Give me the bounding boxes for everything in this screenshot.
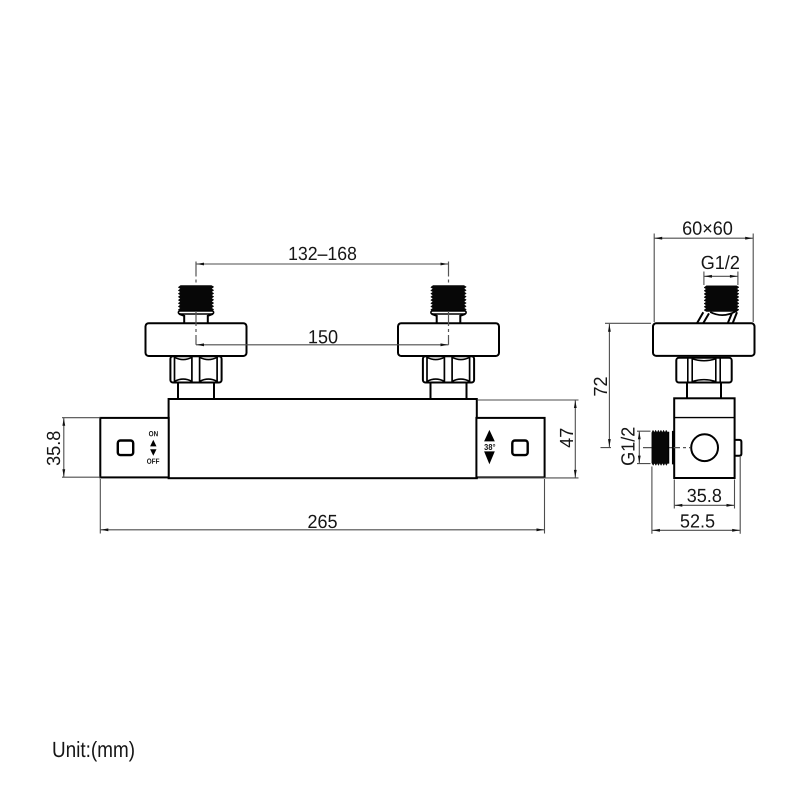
label 38 degrees (484, 444, 495, 450)
dimension 132-168 line (196, 263, 449, 265)
hex nut left (170, 356, 221, 382)
ON arrow up (150, 440, 156, 447)
dimension 35.8 side text (687, 489, 721, 502)
side valve body (674, 398, 734, 478)
escutcheon plate right 60x60 (398, 323, 499, 356)
dimension 72 extensions (601, 323, 652, 447)
unit note (53, 741, 133, 761)
side dimension G1/2 top extensions (704, 272, 738, 286)
dimension 132-168 text (289, 247, 356, 260)
temp arrow up (484, 430, 495, 442)
dimension G1/2 outlet text (621, 428, 635, 465)
thread washer left (178, 311, 213, 314)
side inlet pipe legs (697, 312, 737, 323)
side threaded inlet G1/2 (704, 286, 739, 312)
dimension 265 text (308, 515, 336, 528)
neck transition right (432, 314, 466, 324)
dimension 72 line (608, 324, 610, 447)
escutcheon plate left 60x60 (146, 323, 247, 356)
right handle (temperature) (476, 418, 544, 478)
dimension 265 extension lines (100, 479, 544, 534)
centerline inlet right (448, 262, 450, 345)
right handle button (512, 441, 527, 456)
side inlet pipe bottom arc (710, 311, 736, 315)
dimension 47 extension lines (478, 400, 579, 478)
dimension 52.5 extensions (652, 457, 740, 534)
dimension 35.8 side extensions (674, 480, 734, 509)
valve bar body (169, 399, 477, 478)
side body seam (674, 417, 734, 419)
outlet stub rings (668, 431, 672, 465)
side outlet centerline (643, 447, 690, 449)
neck transition left (179, 314, 213, 324)
thread washer right (431, 311, 466, 314)
side dimension G1/2 top text (702, 255, 739, 269)
side hex nut (676, 358, 731, 383)
dimension 52.5 line (652, 529, 740, 531)
hex nut right (423, 356, 474, 382)
dimension 265 line (100, 529, 544, 531)
dimension 35.8 line (63, 418, 65, 478)
dimension 52.5 text (681, 514, 715, 527)
centerline inlet left (195, 262, 197, 345)
threaded inlet right G1/2 (431, 286, 467, 312)
dimension 150 line (196, 344, 449, 346)
dimension 150 text (309, 330, 337, 343)
dimension 47 line (574, 400, 576, 478)
dimension 35.8 extension lines (62, 418, 100, 478)
left handle button (118, 441, 133, 456)
outlet port circle (691, 434, 718, 461)
lower neck right (431, 383, 467, 399)
temp arrow down (484, 451, 495, 464)
outlet stub thread G1/2 (652, 430, 668, 465)
dimension 35.8 side line (674, 504, 734, 506)
label OFF (147, 458, 159, 463)
side dimension G1/2 top line (704, 275, 738, 277)
dimension G1/2 outlet line (638, 431, 640, 463)
dimension G1/2 outlet extensions (637, 431, 651, 463)
dimension 35.8 text (47, 432, 60, 466)
dimension 47 text (560, 429, 573, 448)
dimension 72 text (594, 377, 607, 395)
side lower neck (687, 383, 721, 399)
side dimension 60x60 text (683, 221, 732, 234)
threaded inlet left G1/2 (178, 286, 214, 312)
side dimension 60x60 line (654, 237, 753, 239)
side dimension 60x60 extensions (654, 234, 753, 323)
side right tab (735, 440, 742, 456)
label ON (149, 431, 158, 436)
lower neck left (178, 383, 214, 399)
side escutcheon plate (653, 323, 755, 356)
left handle (on/off) (100, 418, 168, 478)
OFF arrow down (150, 449, 156, 456)
